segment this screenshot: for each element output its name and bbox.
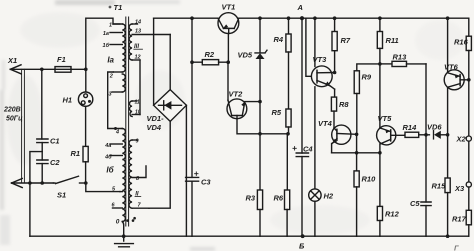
tap 4a xyxy=(110,143,122,145)
wire mains top to tap 1 xyxy=(86,18,120,69)
wire rail to H2 (upper) xyxy=(314,18,316,66)
resistor R8 xyxy=(331,97,336,128)
svg-text:R6: R6 xyxy=(274,194,284,203)
tap 3 xyxy=(112,91,122,93)
resistor R10 xyxy=(354,153,359,236)
svg-text:VD4: VD4 xyxy=(147,123,162,132)
wire VT2 collector to VD5 line xyxy=(245,101,260,103)
node R15 bottom rail xyxy=(446,234,450,238)
tap 4b xyxy=(110,155,122,157)
node: C2 bottom junction xyxy=(40,181,44,185)
capacitor C1 xyxy=(37,69,48,142)
node emitter-R10 xyxy=(355,151,359,155)
tap 11 xyxy=(132,100,137,102)
svg-text:VD1-: VD1- xyxy=(147,114,165,123)
svg-text:H2: H2 xyxy=(324,192,334,201)
svg-text:4: 4 xyxy=(115,130,119,136)
svg-text:VT2: VT2 xyxy=(229,90,244,99)
wire R9 top xyxy=(357,64,380,71)
fuse F1 xyxy=(55,67,86,73)
node rail-C3 xyxy=(190,16,194,20)
tap 10 xyxy=(132,114,140,116)
jumper 12-10 xyxy=(139,60,141,115)
wire bridge left corner up to rail xyxy=(153,18,155,105)
resistor R13 xyxy=(380,61,426,66)
svg-text:0: 0 xyxy=(116,219,120,226)
svg-text:R17: R17 xyxy=(452,215,467,224)
svg-text:R9: R9 xyxy=(362,73,372,82)
capacitor C5 xyxy=(421,135,431,236)
wire VD5 line down through cross xyxy=(259,102,261,190)
resistor R16 xyxy=(466,18,471,80)
connector X1 xyxy=(10,65,24,188)
svg-text:R11: R11 xyxy=(386,36,399,45)
svg-text:220В: 220В xyxy=(3,107,21,114)
node rail-VD5 xyxy=(258,16,262,20)
T1 winding 11-10 (right small) xyxy=(130,101,133,117)
resistor R7 xyxy=(332,32,337,73)
svg-text:R3: R3 xyxy=(246,194,256,203)
resistor R1 xyxy=(83,146,88,183)
node B (bottom) xyxy=(301,234,305,238)
wire right edge base to X2 xyxy=(468,80,470,136)
node VT3 collector xyxy=(333,71,337,75)
svg-text:11: 11 xyxy=(135,100,140,106)
node VT4 collector xyxy=(355,133,359,137)
resistor R12 xyxy=(377,153,382,236)
node: H1 top junction xyxy=(84,68,88,72)
jumper tap2 to tap4 xyxy=(108,72,123,129)
svg-text:Ia: Ia xyxy=(107,56,114,65)
transistor VT2 xyxy=(227,62,247,118)
node: S1 right junction xyxy=(84,181,88,185)
svg-text:4a: 4a xyxy=(104,143,111,149)
capacitor C2 xyxy=(37,143,48,183)
diode VD6 xyxy=(434,131,448,139)
node: midpoint chassis junction xyxy=(28,181,32,185)
lamp H1 xyxy=(78,69,92,146)
transistor VT1 xyxy=(218,13,239,63)
tap 2 xyxy=(113,71,122,73)
node VD6 output xyxy=(446,133,450,137)
wire rail to VD5 xyxy=(259,18,261,53)
resistor R4 xyxy=(286,34,291,109)
svg-text:4б: 4б xyxy=(104,154,112,161)
node 0-rail xyxy=(122,234,126,238)
wire rail to C3 xyxy=(191,18,193,62)
svg-text:R13: R13 xyxy=(393,53,408,62)
wire chassis down to bottom rail xyxy=(29,183,31,236)
svg-text:R16: R16 xyxy=(454,38,469,47)
svg-text:R2: R2 xyxy=(205,50,215,59)
tap 0 wire down to ground xyxy=(122,222,123,242)
svg-text:VT1: VT1 xyxy=(222,3,236,12)
diode bridge VD1-VD4 xyxy=(154,90,187,122)
svg-text:VT6: VT6 xyxy=(444,63,459,72)
tap 1b xyxy=(110,44,122,46)
T1 winding III (right top) xyxy=(129,24,132,60)
node rail-R11 xyxy=(378,16,382,20)
node A xyxy=(300,16,304,20)
zener diode VD5 xyxy=(255,50,267,101)
svg-text:X2: X2 xyxy=(456,135,467,144)
node R2 left xyxy=(190,60,194,64)
resistor R2 xyxy=(192,60,228,65)
svg-text:10: 10 xyxy=(135,110,141,116)
wire bridge top to tap13 xyxy=(169,35,171,90)
svg-text:R15: R15 xyxy=(432,182,447,191)
svg-text:50Гц: 50Гц xyxy=(6,116,23,123)
emitter wire VT4-VT5 xyxy=(332,152,380,154)
svg-text:F1: F1 xyxy=(57,55,66,64)
resistor R15 xyxy=(445,135,450,236)
stray dots near tap 0 xyxy=(126,219,129,222)
svg-text:R12: R12 xyxy=(385,210,400,219)
node below tap7 xyxy=(133,217,136,220)
node rail-R7 xyxy=(333,16,337,20)
svg-text:1б: 1б xyxy=(103,42,110,49)
wire VT2 base to R5 xyxy=(237,119,289,134)
svg-text:R5: R5 xyxy=(272,108,282,117)
transistor VT5 xyxy=(377,126,396,153)
node rail-H2 xyxy=(313,16,317,20)
resistor R3 xyxy=(257,190,262,236)
top rail xyxy=(154,17,218,19)
svg-text:X1: X1 xyxy=(7,56,17,65)
bottom rail xyxy=(30,235,469,237)
tap 9 xyxy=(132,139,137,141)
svg-text:X3: X3 xyxy=(454,184,465,193)
resistor R6 xyxy=(285,132,290,236)
svg-text:S1: S1 xyxy=(57,191,66,200)
wire rail to VT6 collector xyxy=(447,18,449,73)
node tap4 xyxy=(114,127,117,130)
svg-text:Г: Г xyxy=(454,244,459,251)
lamp H2 xyxy=(309,189,321,236)
wire C1C2 midpoint to chassis xyxy=(30,152,42,183)
wire R13 corner down to output xyxy=(425,64,427,135)
svg-text:1: 1 xyxy=(109,23,112,29)
svg-text:Iб: Iб xyxy=(106,166,114,175)
svg-text:T1: T1 xyxy=(114,3,123,12)
resistor R11 xyxy=(377,32,382,64)
svg-text:VD5: VD5 xyxy=(238,51,253,60)
tap 13 wire to bridge xyxy=(132,34,170,36)
wire bridge right corner to bottom rail xyxy=(185,105,187,236)
svg-text:14: 14 xyxy=(135,20,141,26)
capacitor C3 xyxy=(186,62,199,236)
svg-text:C4: C4 xyxy=(303,145,313,154)
underline for III xyxy=(134,48,143,50)
svg-text:R7: R7 xyxy=(341,36,351,45)
svg-text:C3: C3 xyxy=(201,178,211,187)
scan noise xyxy=(109,6,112,9)
terminal X3 xyxy=(466,182,471,187)
svg-text:VT5: VT5 xyxy=(378,114,393,123)
svg-text:13: 13 xyxy=(135,29,141,35)
resistor R17 xyxy=(466,187,471,236)
wire rail to R7 xyxy=(334,18,336,31)
node cross VD5/base wire xyxy=(258,132,262,136)
svg-text:H1: H1 xyxy=(63,96,73,105)
tap 1a xyxy=(110,32,122,34)
wire rail to R11 xyxy=(379,18,381,31)
node R11 bottom xyxy=(378,62,382,66)
node R2 right xyxy=(226,60,230,64)
transformer tap labels xyxy=(103,20,142,226)
wire R9R10 mid xyxy=(356,134,358,153)
wire mains bottom xyxy=(12,182,54,184)
node rail-R4 xyxy=(287,16,291,20)
svg-text:R8: R8 xyxy=(339,100,349,109)
tap 5 xyxy=(120,191,122,193)
svg-text:1a: 1a xyxy=(103,31,109,37)
transistor VT6 xyxy=(444,70,469,135)
node R13/C5 on output wire xyxy=(424,133,428,137)
wire X2 to X3 xyxy=(468,141,470,182)
tap 8 xyxy=(132,166,146,178)
transistor VT4 xyxy=(332,125,357,153)
tap 12 xyxy=(132,59,140,61)
svg-text:C1: C1 xyxy=(50,137,60,146)
T1 winding section 2-3 xyxy=(122,74,125,92)
wire S1 junction to tap 5 xyxy=(86,183,120,192)
wire mains top xyxy=(10,68,55,70)
svg-text:Б: Б xyxy=(299,242,305,251)
switch S1 xyxy=(54,176,86,183)
svg-text:12: 12 xyxy=(135,55,141,61)
svg-text:R1: R1 xyxy=(71,149,81,158)
wire bridge bottom to tap7 xyxy=(149,121,170,208)
svg-text:3: 3 xyxy=(108,92,111,98)
svg-text:C2: C2 xyxy=(50,158,60,167)
wire rail to R4 xyxy=(288,18,290,34)
node rail-VT6 xyxy=(446,16,450,20)
ground symbol xyxy=(115,244,134,247)
capacitor C4 xyxy=(293,147,309,237)
terminal X2 xyxy=(466,136,471,141)
transformer T1 core xyxy=(126,17,129,226)
node VT6 base xyxy=(467,78,471,82)
svg-text:R4: R4 xyxy=(274,35,284,44)
T1 winding Ia (primary section 1) xyxy=(122,24,125,72)
node: C1 top junction xyxy=(40,68,44,72)
tap 14 xyxy=(132,23,137,25)
svg-text:R14: R14 xyxy=(403,123,418,132)
svg-text:2: 2 xyxy=(109,74,113,80)
node emitter-VT5 xyxy=(378,151,382,155)
tap 1 xyxy=(113,23,122,25)
T1 winding Ib (left lower) xyxy=(122,129,125,222)
tap 7 wire to bridge bottom xyxy=(132,207,149,209)
svg-text:VT3: VT3 xyxy=(313,55,328,64)
transistor VT3 xyxy=(311,66,334,89)
svg-text:VT4: VT4 xyxy=(318,119,333,128)
node VT2 collector xyxy=(258,100,262,104)
resistor R14 xyxy=(396,132,430,137)
svg-text:VD6: VD6 xyxy=(427,123,442,132)
tap 6 xyxy=(113,207,123,209)
resistor R9 xyxy=(354,71,359,135)
T1 winding II (right lower) xyxy=(129,140,132,208)
svg-text:R10: R10 xyxy=(362,175,377,184)
underline for II xyxy=(135,196,141,198)
svg-text:A: A xyxy=(297,3,303,12)
wire H2 line mid segment xyxy=(314,87,316,189)
svg-text:C5: C5 xyxy=(410,199,420,208)
wire A down to C4 xyxy=(301,18,303,153)
resistor R5 xyxy=(286,109,291,134)
wire VT3 emitter to R8 xyxy=(334,89,336,97)
wire R11 node to VT5 collector xyxy=(379,64,381,128)
wire VT3 base line xyxy=(306,18,311,76)
